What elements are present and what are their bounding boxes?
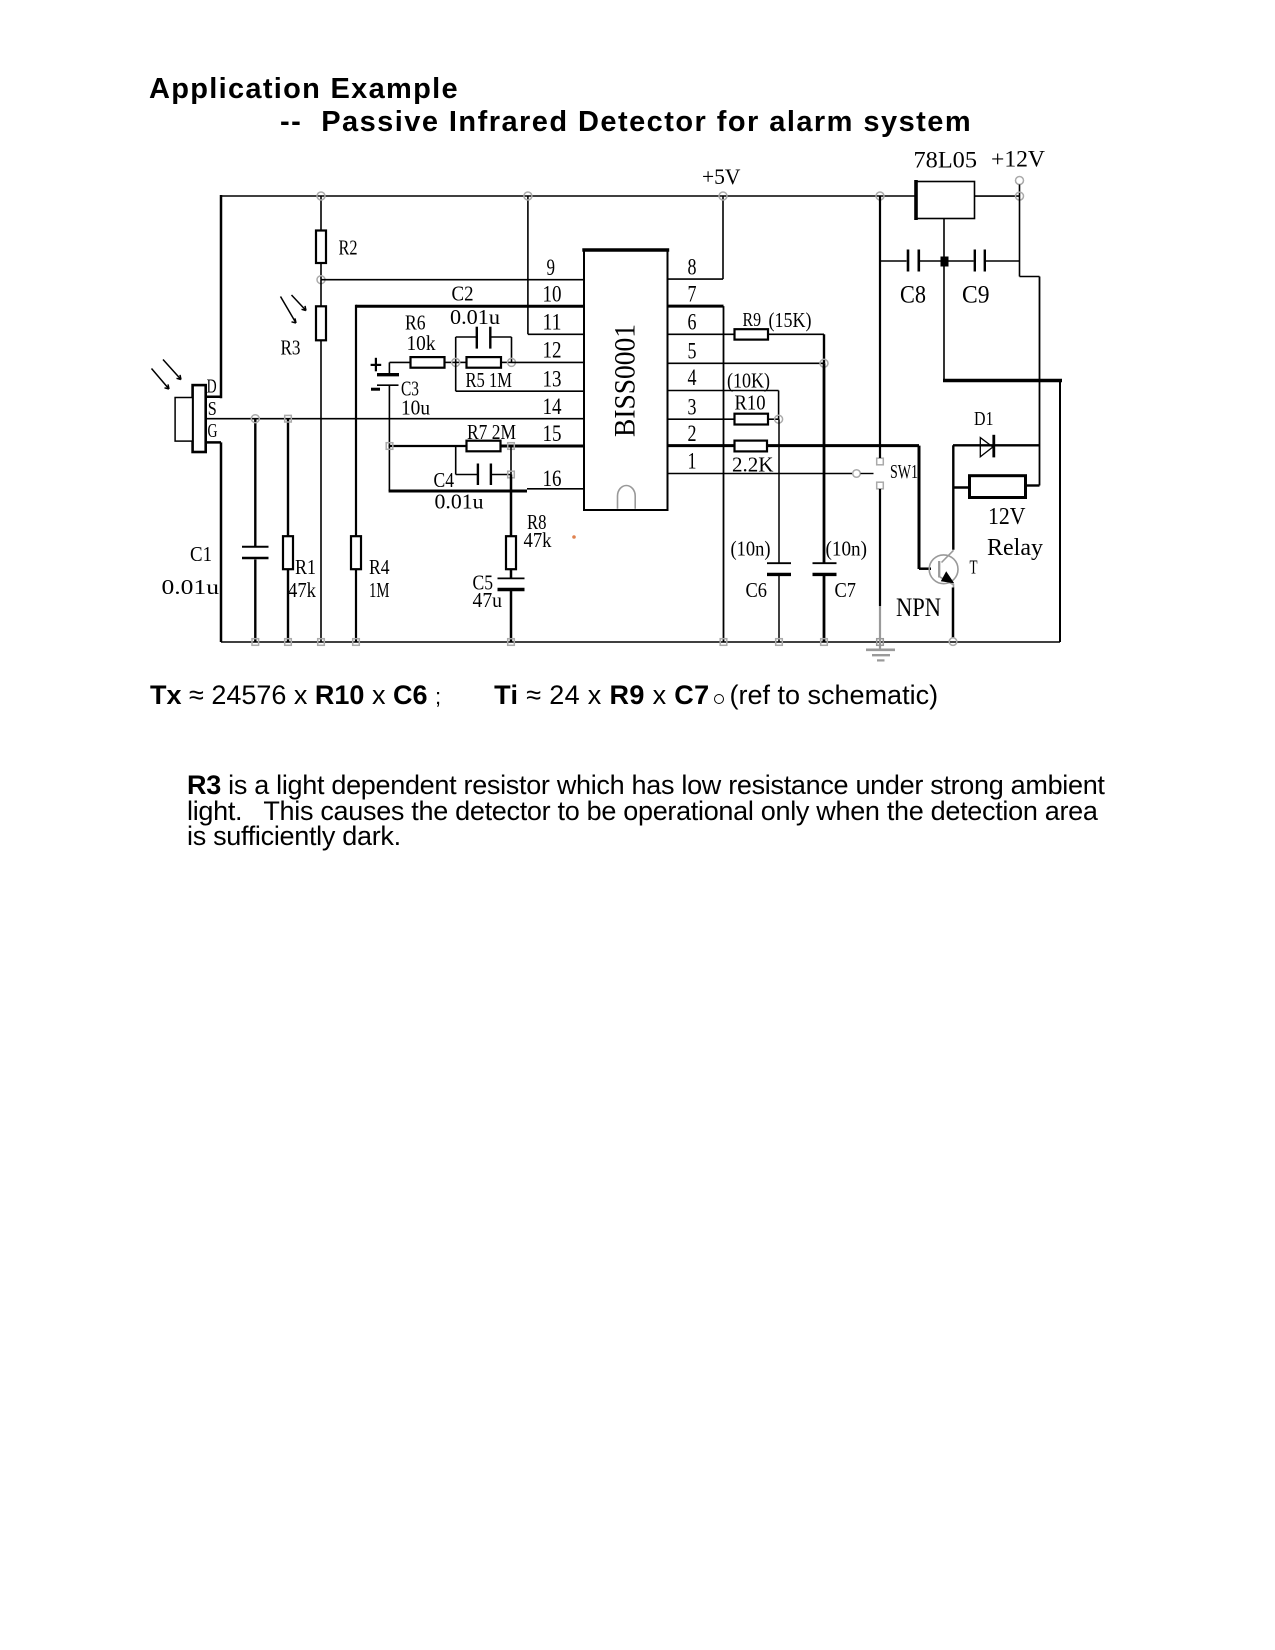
node R2/R3 junction (317, 276, 325, 284)
wire pin16 (thick) (389, 489, 584, 491)
node C3/pin15 elbow (386, 443, 393, 450)
svg-text:R9: R9 (743, 309, 762, 331)
label SW1 (890, 461, 918, 483)
label R8 (527, 510, 547, 534)
wire 78L05 gnd (943, 219, 1062, 381)
svg-text:15: 15 (543, 421, 562, 446)
svg-text:7: 7 (688, 281, 697, 306)
PIR sensor pin label D (207, 375, 217, 397)
label C4 value 0.01u (435, 490, 485, 514)
node S/R1 (285, 415, 292, 422)
wire pin13 (456, 362, 584, 391)
resistor R5 (456, 357, 512, 368)
capacitor C1 (242, 419, 269, 642)
node C4 right (508, 471, 515, 478)
label C2 (452, 282, 474, 306)
svg-text:R2: R2 (339, 236, 358, 260)
PIR sensor body (175, 385, 206, 452)
label +5V (702, 164, 741, 189)
node +5V/SW1 branch junction (876, 192, 884, 200)
wire ground rail (221, 641, 1060, 643)
svg-text:D: D (207, 375, 217, 397)
resistor 2.2K (735, 441, 768, 452)
svg-text:16: 16 (543, 466, 562, 491)
svg-text:C6: C6 (746, 578, 768, 602)
svg-text:1: 1 (688, 449, 697, 474)
wire pin15 right segment (thick) (501, 445, 585, 448)
resistor R4 (351, 305, 361, 642)
svg-text:10: 10 (543, 281, 562, 306)
label R10 value (10K) (727, 369, 770, 393)
node +5V/R2 junction (317, 192, 325, 200)
svg-text:13: 13 (543, 366, 562, 391)
label C8 (900, 282, 926, 309)
svg-text:R3: R3 (281, 336, 301, 360)
svg-text:BISS0001: BISS0001 (609, 324, 642, 437)
wire pin11 to +5V rail (528, 196, 584, 334)
PIR sensor pin label G (208, 420, 218, 442)
label R10 (735, 391, 766, 415)
svg-text:10k: 10k (407, 331, 436, 355)
wire 78L05 output to +12V (975, 195, 1020, 197)
wire pin1 (668, 473, 854, 475)
svg-text:+5V: +5V (702, 164, 741, 189)
capacitor C9 (949, 250, 1020, 272)
svg-text:5: 5 (688, 339, 697, 364)
label R6 value 10k (407, 331, 436, 355)
wire pin5 (668, 362, 825, 364)
resistor R8 (506, 475, 516, 579)
relay coil (970, 476, 1026, 498)
svg-text:(10K): (10K) (727, 369, 770, 393)
capacitor C4 (456, 446, 511, 485)
svg-text:SW1: SW1 (890, 461, 918, 483)
svg-text:0.01u: 0.01u (162, 575, 220, 599)
label R1 value 47k (288, 578, 316, 602)
label C6 value (10n) (731, 537, 771, 561)
svg-text:+12V: +12V (991, 147, 1045, 173)
label C4 (434, 468, 455, 492)
wire pin4 (668, 391, 779, 420)
wire C8 branch (880, 260, 907, 262)
terminal emitter/ground (949, 638, 957, 646)
label R9 value (15K) (769, 308, 812, 332)
paragraph (187, 773, 1105, 850)
node R10/pin4/C6 (775, 415, 783, 423)
regulator 78L05 (916, 180, 975, 220)
wire sensor G to ground (206, 442, 221, 642)
label C7 value (10n) (826, 537, 868, 561)
C3 plus sign (371, 358, 382, 372)
svg-text:(10n): (10n) (731, 537, 771, 561)
node R6/R5/C2/pin13 (452, 358, 460, 366)
wire collector riser (952, 445, 954, 550)
op-amp IC U1 BISS0001 body (582, 250, 669, 510)
wire pin6 (668, 333, 735, 335)
label T (970, 557, 978, 579)
svg-text:R5 1M: R5 1M (466, 368, 513, 392)
svg-text:47k: 47k (288, 578, 316, 602)
IR arrows at sensor (152, 360, 182, 390)
wire pin2 (thick) (668, 444, 735, 447)
resistor R2 (316, 196, 326, 280)
svg-text:C9: C9 (962, 282, 990, 309)
label C9 (962, 282, 990, 309)
wire pin8 to +5V rail (668, 196, 724, 279)
wire +12V down to relay/D1 (1020, 196, 1040, 485)
label C2 value 0.01u (450, 305, 501, 329)
svg-text:12V: 12V (988, 504, 1026, 530)
resistor R1 (283, 419, 293, 642)
light arrows at R3 (281, 295, 307, 323)
svg-text:C4: C4 (434, 468, 455, 492)
capacitor C2 (456, 327, 512, 363)
svg-text:G: G (208, 420, 218, 442)
svg-text:C8: C8 (900, 282, 926, 309)
svg-text:9: 9 (547, 255, 556, 280)
capacitor C6 (767, 419, 791, 642)
stray orange dot (572, 535, 576, 539)
PIR sensor pin label S (208, 398, 217, 420)
wire sensor S to pin14 (207, 418, 585, 420)
svg-text:(15K): (15K) (769, 308, 812, 332)
node R9/pin5/C7 (820, 359, 828, 367)
resistor R9 (735, 329, 825, 363)
label R4 (369, 555, 390, 579)
svg-text:S: S (208, 398, 217, 420)
label +12V (991, 147, 1045, 173)
svg-text:R7 2M: R7 2M (467, 420, 516, 444)
label C6 (746, 578, 768, 602)
svg-text:47k: 47k (524, 528, 552, 552)
label D1 (974, 408, 994, 430)
node 78L05 gnd dot (941, 257, 949, 267)
svg-text:Relay: Relay (987, 535, 1043, 561)
svg-text:6: 6 (688, 310, 697, 335)
label C1 value 0.01u (162, 575, 220, 599)
label R5 value (466, 368, 513, 392)
svg-text:R10: R10 (735, 391, 766, 415)
label R1 (295, 555, 316, 579)
wire pin9 (321, 279, 584, 281)
svg-text:12: 12 (543, 338, 562, 363)
label R6 (405, 311, 426, 335)
svg-text:R4: R4 (369, 555, 390, 579)
C3 minus sign (371, 388, 380, 391)
label NPN (896, 593, 941, 622)
ground symbol (866, 650, 895, 661)
svg-text:11: 11 (543, 310, 562, 335)
node SW1/ground rail (877, 639, 884, 646)
wire pin10 (thick) (356, 305, 584, 308)
resistor R6 (390, 357, 457, 368)
pin numbers right side 8-1 (688, 254, 697, 473)
svg-text:10u: 10u (401, 396, 430, 420)
svg-text:R1: R1 (295, 555, 316, 579)
transistor Q1 NPN (929, 550, 958, 588)
heading line 1 (149, 73, 459, 106)
formula line (150, 680, 938, 711)
label R8 value 47k (524, 528, 552, 552)
svg-text:C1: C1 (190, 542, 212, 566)
svg-text:NPN: NPN (896, 593, 941, 622)
svg-text:D1: D1 (974, 408, 994, 430)
diode D1 (980, 435, 994, 458)
svg-text:47u: 47u (473, 588, 503, 612)
svg-text:C7: C7 (835, 578, 857, 602)
label 12V (988, 504, 1026, 530)
label 2.2K (732, 453, 774, 477)
ground rail junctions (252, 639, 827, 646)
label R3 (281, 336, 301, 360)
label C1 (190, 542, 212, 566)
svg-text:(10n): (10n) (826, 537, 868, 561)
label C5 value 47u (473, 588, 503, 612)
capacitor C5 (498, 578, 525, 642)
node R5/C2/pin12 (508, 358, 516, 366)
label C5 (473, 571, 494, 595)
label R4 value 1M (369, 578, 390, 602)
capacitor C8 (908, 250, 941, 272)
pin numbers left side 9-16 (543, 255, 562, 491)
wire emitter to ground (952, 588, 955, 638)
capacitor C7 (813, 363, 837, 642)
label Relay (987, 535, 1043, 561)
label C7 (835, 578, 857, 602)
resistor R7 (467, 441, 501, 452)
wire +5V top rail (221, 195, 916, 197)
node +5V/pin8 junction (719, 192, 727, 200)
capacitor C3 (electrolytic, battery style) (377, 362, 399, 491)
node S/C1 (251, 415, 259, 423)
wire D1 line (953, 444, 1040, 446)
svg-text:8: 8 (688, 254, 697, 279)
wire left border (D to +5V rail) (206, 195, 222, 398)
resistor R3 (LDR) (316, 280, 326, 642)
wire pin12 (512, 361, 585, 363)
node +5V/pin11 junction (524, 192, 532, 200)
label BISS0001 (609, 324, 642, 437)
wire SW1 bottom contact to ground (879, 489, 881, 650)
svg-text:2: 2 (688, 421, 697, 446)
svg-text:78L05: 78L05 (914, 148, 978, 174)
svg-text:4: 4 (688, 365, 697, 390)
terminal +12V (1016, 177, 1024, 197)
heading line 2 (280, 106, 972, 139)
label C3 (401, 377, 419, 401)
wire right border (78L05 gnd to ground rail) (1059, 381, 1061, 643)
SW1 arm terminal (853, 470, 874, 478)
svg-text:C2: C2 (452, 282, 474, 306)
resistor R10 (735, 414, 779, 425)
svg-text:3: 3 (688, 394, 697, 419)
label R2 (339, 236, 358, 260)
svg-text:1M: 1M (369, 578, 390, 602)
svg-text:14: 14 (543, 394, 562, 419)
wire +5V down to SW1 top contact (879, 196, 881, 458)
label R9 (743, 309, 762, 331)
switch SW1 contacts (877, 458, 884, 489)
label C3 value 10u (401, 396, 430, 420)
node pin15/C4/R8 (508, 443, 515, 450)
wire pin2 to transistor base (767, 446, 931, 569)
wire pin7 to ground (thick then down) (668, 306, 724, 642)
label R7 value (467, 420, 516, 444)
svg-text:0.01u: 0.01u (450, 305, 501, 329)
wire relay left (953, 486, 970, 488)
svg-text:T: T (970, 557, 978, 579)
svg-text:0.01u: 0.01u (435, 490, 485, 514)
node +12V junction (1016, 192, 1024, 200)
wire relay right to +12V (1026, 484, 1040, 486)
wire pin3 (668, 418, 735, 420)
IC bottom notch (618, 486, 636, 509)
label 78L05 (914, 148, 978, 174)
wire pin15 left segment (389, 445, 467, 447)
